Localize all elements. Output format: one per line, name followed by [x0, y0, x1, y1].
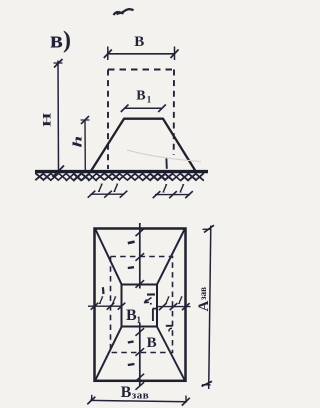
- svg-text:В: В: [134, 34, 144, 50]
- dimension B left tick: [107, 47, 109, 61]
- dimension H top tick: [54, 62, 63, 64]
- dimension B_zav line: [90, 400, 187, 401]
- B_zav left tick: [91, 395, 93, 401]
- dimension h: vertical line: [84, 120, 86, 171]
- vertical centerline upper: [139, 223, 141, 289]
- svg-text:зав: зав: [198, 287, 208, 300]
- left l-dimension plan: [88, 305, 122, 307]
- pen squiggle artifact top center: [114, 9, 134, 15]
- stray dash near ground: [165, 159, 167, 169]
- dashed prism left edge: [107, 70, 109, 170]
- A_zav bottom tick: [202, 384, 211, 386]
- dimension A_zav vertical line: [209, 226, 211, 390]
- svg-text:h: h: [70, 136, 85, 148]
- embankment trapezoid: [91, 119, 196, 171]
- dashed prism top edge: [108, 69, 174, 71]
- dimension B1 left tick: [121, 105, 129, 113]
- dimension B1 right tick: [158, 105, 166, 113]
- svg-text:1: 1: [137, 315, 142, 325]
- faint scan curve: [127, 150, 201, 162]
- svg-text:Н: Н: [41, 113, 54, 127]
- B_zav right tick: [185, 396, 187, 402]
- svg-text:зав: зав: [132, 389, 149, 401]
- left l-dimension under ground: [91, 193, 125, 195]
- svg-text:В: В: [147, 335, 157, 351]
- dashed prism right edge: [173, 70, 175, 156]
- dimension H bottom tick: [53, 166, 65, 178]
- ground line: [35, 170, 208, 173]
- right l-dimension under ground: [155, 194, 190, 196]
- centerline ticks: [136, 229, 145, 237]
- svg-text:В: В: [126, 307, 137, 324]
- bracket mark right of B1 label: [153, 308, 158, 310]
- right l-dimension plan: [157, 306, 191, 308]
- dimension B right tick: [174, 47, 176, 61]
- A_zav top tick: [203, 228, 212, 230]
- svg-text:в): в): [50, 28, 71, 54]
- svg-text:1: 1: [147, 95, 152, 105]
- slope tick marks: [128, 242, 135, 244]
- dimension h top tick: [81, 119, 90, 121]
- diagonal top-left: [96, 230, 122, 285]
- svg-text:В: В: [136, 88, 145, 103]
- svg-text:В: В: [121, 384, 132, 401]
- vertical centerline lower: [139, 323, 141, 387]
- diagonal bottom-right: [157, 326, 185, 380]
- squiggle blob: [117, 13, 124, 14]
- inner arrow mark: [147, 293, 155, 295]
- ground hatching: [35, 173, 44, 180]
- dimension H: vertical line: [57, 61, 60, 172]
- outer rectangle (pit bottom edge): [95, 229, 186, 381]
- svg-text:А: А: [196, 301, 212, 312]
- dimension B top: line: [108, 53, 176, 55]
- diagonal bottom-left: [96, 326, 122, 380]
- right slope mark: [166, 325, 173, 327]
- dimension B1: line: [125, 107, 163, 109]
- inner rectangle B1: [122, 285, 158, 327]
- dashed rectangle B: [111, 257, 173, 353]
- diagonal top-right: [157, 230, 185, 285]
